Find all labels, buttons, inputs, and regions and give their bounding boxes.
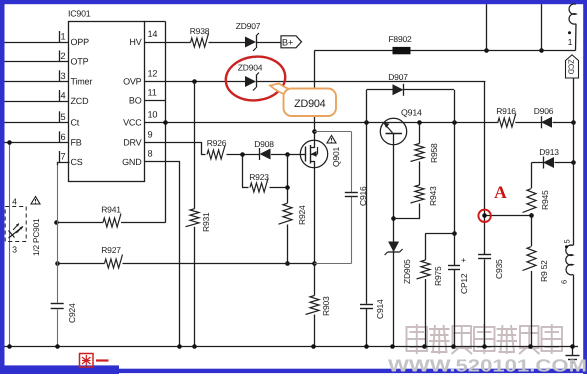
svg-text:4: 4 bbox=[12, 197, 17, 207]
svg-text:R943: R943 bbox=[428, 186, 438, 206]
svg-text:R975: R975 bbox=[433, 266, 443, 286]
svg-text:1/2 PC901: 1/2 PC901 bbox=[31, 218, 41, 256]
svg-text:R924: R924 bbox=[297, 205, 307, 225]
svg-text:OPP: OPP bbox=[71, 37, 90, 47]
svg-text:8: 8 bbox=[148, 149, 153, 159]
svg-text:HV: HV bbox=[129, 37, 141, 47]
svg-text:R916: R916 bbox=[496, 106, 516, 116]
svg-text:Timer: Timer bbox=[71, 77, 93, 87]
svg-text:ZCD: ZCD bbox=[567, 59, 576, 75]
svg-text:DRV: DRV bbox=[123, 138, 141, 148]
svg-text:WWW.520101.COM: WWW.520101.COM bbox=[388, 356, 587, 374]
svg-text:ZD905: ZD905 bbox=[402, 259, 412, 284]
svg-text:ZCD: ZCD bbox=[71, 96, 90, 106]
svg-text:BO: BO bbox=[129, 96, 142, 106]
svg-text:D908: D908 bbox=[254, 139, 274, 149]
svg-text:B+: B+ bbox=[282, 37, 293, 47]
svg-text:R923: R923 bbox=[249, 172, 269, 182]
svg-text:10: 10 bbox=[148, 109, 158, 119]
svg-text:Q901: Q901 bbox=[331, 147, 341, 167]
svg-text:12: 12 bbox=[148, 69, 158, 79]
svg-text:GND: GND bbox=[122, 157, 142, 167]
svg-text:CS: CS bbox=[71, 157, 83, 167]
svg-text:7: 7 bbox=[61, 152, 66, 162]
svg-text:3: 3 bbox=[61, 71, 66, 81]
svg-text:2: 2 bbox=[61, 51, 66, 61]
svg-text:R941: R941 bbox=[101, 205, 121, 215]
svg-text:ZD904: ZD904 bbox=[294, 98, 326, 110]
svg-text:F8902: F8902 bbox=[388, 34, 412, 44]
svg-text:ZD907: ZD907 bbox=[236, 21, 261, 31]
svg-text:D907: D907 bbox=[388, 72, 408, 82]
svg-text:1: 1 bbox=[61, 32, 66, 42]
svg-text:Ct: Ct bbox=[71, 118, 80, 128]
svg-text:11: 11 bbox=[148, 88, 157, 98]
svg-text:D906: D906 bbox=[534, 106, 554, 116]
svg-text:D913: D913 bbox=[539, 147, 559, 157]
svg-text:1: 1 bbox=[568, 37, 573, 47]
svg-text:VCC: VCC bbox=[123, 118, 142, 128]
svg-text:14: 14 bbox=[148, 29, 158, 39]
svg-text:5: 5 bbox=[563, 240, 572, 244]
svg-text:R903: R903 bbox=[321, 296, 331, 316]
svg-text:R9 52: R9 52 bbox=[539, 260, 549, 282]
svg-text:Q914: Q914 bbox=[401, 108, 422, 118]
svg-text:+: + bbox=[461, 255, 466, 265]
svg-text:CP12: CP12 bbox=[459, 273, 469, 294]
svg-text:OVP: OVP bbox=[123, 77, 142, 87]
svg-text:R938: R938 bbox=[190, 26, 210, 36]
svg-text:C935: C935 bbox=[494, 259, 504, 279]
svg-text:9: 9 bbox=[148, 129, 153, 139]
svg-text:A: A bbox=[494, 182, 507, 202]
svg-text:OTP: OTP bbox=[71, 57, 89, 67]
svg-text:3: 3 bbox=[12, 245, 17, 255]
svg-text:ZD904: ZD904 bbox=[238, 63, 263, 73]
svg-text:6: 6 bbox=[61, 132, 66, 142]
svg-text:R945: R945 bbox=[540, 190, 550, 210]
svg-text:4: 4 bbox=[61, 91, 66, 101]
svg-text:FB: FB bbox=[71, 138, 82, 148]
svg-text:6: 6 bbox=[560, 280, 569, 284]
svg-text:R931: R931 bbox=[201, 212, 211, 232]
svg-text:IC901: IC901 bbox=[68, 9, 91, 19]
svg-text:R926: R926 bbox=[207, 138, 227, 148]
svg-text:5: 5 bbox=[61, 112, 66, 122]
svg-text:C914: C914 bbox=[375, 299, 385, 319]
svg-text:R958: R958 bbox=[429, 143, 439, 163]
svg-text:C924: C924 bbox=[67, 303, 77, 323]
svg-text:R927: R927 bbox=[101, 245, 121, 255]
